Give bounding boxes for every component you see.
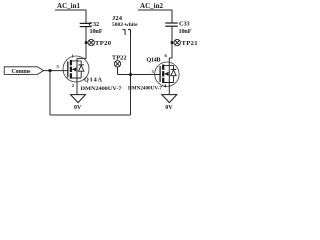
pin number 5 [57,64,60,69]
wire TP22 stem [117,67,119,75]
test point TP21 [174,39,198,47]
pin number 1 [72,54,75,59]
svg-text:TP20: TP20 [95,40,112,47]
label Q14A [84,76,103,83]
wire [44,70,68,72]
svg-text:TP22: TP22 [112,54,127,61]
node junction Comms [49,69,52,72]
ground 0V right [162,95,177,111]
svg-text:C33: C33 [179,21,190,28]
value label DMN2400UV-7 [81,86,122,92]
node junction TP20 [85,41,88,44]
svg-text:AC_in1: AC_in1 [57,2,81,10]
capacitor C32 [80,21,103,35]
test point TP22 [112,54,127,67]
ground 0V left [71,95,86,111]
node junction J24/Comms/gate [129,73,132,76]
svg-text:DMN2400UV-7: DMN2400UV-7 [81,86,122,92]
net label AC_in1 [57,2,81,10]
wire [171,26,173,58]
pin number 3 [152,69,155,74]
svg-text:J24: J24 [112,15,123,22]
svg-text:C32: C32 [89,21,100,28]
label Q14B [147,57,161,64]
node junction TP21 [171,41,174,44]
wire [50,114,131,116]
pin number 6 [165,53,168,58]
wire [85,10,87,23]
svg-text:0V: 0V [74,105,82,111]
svg-text:AC_in2: AC_in2 [140,2,164,10]
transistor Q14B DMN2400UV-7 [155,58,179,95]
svg-text:5002-white: 5002-white [112,22,138,28]
connector J24 5002-white [112,15,138,35]
svg-text:TP21: TP21 [182,40,198,47]
svg-text:0V: 0V [165,105,173,111]
net label AC_in2 [140,2,164,10]
svg-text:Comms: Comms [12,69,32,75]
wire [49,71,51,115]
svg-text:Q14A: Q14A [84,76,103,83]
port Comms [4,67,43,75]
wire gate Q14B [118,74,161,76]
test point TP20 [88,39,112,47]
svg-text:Q14B: Q14B [147,57,161,64]
svg-text:10nF: 10nF [179,28,192,35]
value label DMN2400UV-7 (right) [128,85,162,91]
wire drain jog Q14A [77,57,87,59]
capacitor C33 [165,21,192,35]
wire [85,27,87,59]
wire drain jog Q14B [169,57,172,59]
svg-text:10nF: 10nF [90,28,103,35]
wire [171,10,173,23]
wire [130,30,132,115]
wire [138,9,173,11]
pin number 2 [72,83,75,88]
wire [55,9,87,11]
svg-text:DMN2400UV-7: DMN2400UV-7 [128,85,162,91]
transistor Q14A DMN2400UV-7 [63,56,89,95]
pin number 4 [164,84,167,89]
